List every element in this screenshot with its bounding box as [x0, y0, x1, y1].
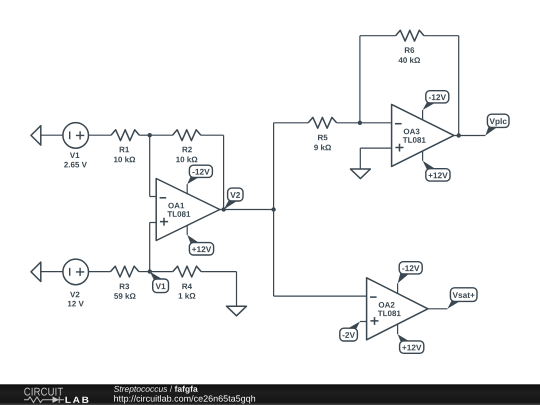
op-amp OA3 TL081 — [392, 104, 454, 166]
node flag arrow (left, V1 row) — [31, 126, 41, 145]
node junction OA3 output — [457, 133, 461, 137]
power flag -12V (OA2) — [398, 262, 423, 284]
power flag -12V (OA3) — [423, 91, 449, 110]
voltage source V2 12 V — [63, 259, 89, 306]
wire inverting input OA1 — [149, 135, 151, 196]
op-amp OA2 TL081 — [367, 278, 428, 340]
resistor R6 40 kΩ — [360, 30, 459, 63]
node flag Vsat+ — [447, 288, 477, 309]
wire — [149, 223, 151, 272]
power flag +12V (OA3) — [423, 161, 450, 181]
voltage source V1 2.65 V — [63, 123, 89, 168]
node flag Vplc — [485, 114, 509, 135]
power flag +12V (OA1) — [187, 235, 213, 255]
wire — [41, 271, 63, 273]
resistor R4 1 kΩ — [150, 266, 237, 298]
wire OA1 output — [220, 209, 274, 211]
node junction mid — [271, 207, 275, 211]
wire OA2 output — [428, 308, 448, 310]
footer bar — [0, 384, 540, 405]
wire feedback down — [223, 135, 225, 209]
wire — [359, 148, 361, 169]
power flag -12V (OA1) — [187, 165, 212, 184]
wire R6 right down — [458, 36, 460, 136]
power flag +12V (OA2) — [398, 334, 424, 353]
ground (R4) — [227, 306, 247, 316]
resistor R3 59 kΩ — [111, 266, 150, 299]
node flag arrow (left, V2 row) — [31, 262, 41, 281]
wire to R5 — [274, 122, 309, 124]
node junction V1 — [148, 269, 152, 273]
wire — [88, 271, 110, 273]
wire OA2 + input stub — [360, 321, 367, 323]
wire noninverting input OA1 — [150, 222, 157, 224]
node junction R5/R6 — [358, 121, 362, 125]
power flag -2V (OA2) — [340, 322, 360, 342]
node flag V2 — [224, 188, 243, 209]
resistor R1 10 kΩ — [111, 130, 150, 162]
wire — [41, 134, 63, 136]
wire OA3 + input — [360, 147, 391, 149]
wire R4 to ground — [236, 272, 238, 306]
op-amp OA1 TL081 — [156, 179, 220, 241]
node flag V1 — [150, 272, 169, 293]
node junction OA1 output — [222, 207, 226, 211]
resistor R2 10 kΩ — [150, 130, 224, 162]
ground (OA3) — [350, 169, 370, 179]
node junction R1/R2 — [148, 133, 152, 137]
CircuitLab logo — [24, 388, 88, 403]
resistor R5 9 kΩ — [308, 117, 391, 150]
footer url — [114, 395, 255, 403]
wire — [150, 196, 157, 198]
footer title — [114, 386, 167, 394]
wire mid vertical — [273, 123, 275, 296]
wire — [88, 134, 111, 136]
wire R6 branch up — [359, 36, 361, 123]
wire OA3 output — [454, 135, 486, 137]
wire OA2 - input row — [274, 295, 367, 297]
